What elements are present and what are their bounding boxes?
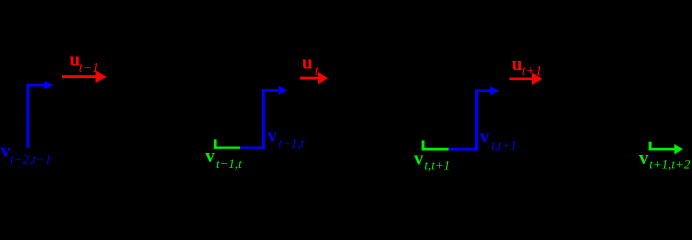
wire: blue L-arrow 1 horizontal segment bbox=[26, 84, 44, 87]
svg-text:t−1: t−1 bbox=[79, 61, 99, 76]
arrow u_t shaft (red) bbox=[300, 77, 319, 80]
arrowhead: blue L-arrow 1 bbox=[44, 81, 53, 90]
arrowhead u_{t+1} (red) bbox=[532, 73, 542, 85]
svg-text:v: v bbox=[205, 146, 215, 167]
arrowhead u_{t-1} (red) bbox=[96, 70, 107, 83]
wire: green corner 4 horizontal segment bbox=[649, 148, 675, 151]
svg-text:t,t+1: t,t+1 bbox=[424, 158, 450, 173]
arrowhead: blue step 2 bbox=[279, 86, 288, 95]
wire: blue step 3 top horizontal segment bbox=[475, 90, 490, 93]
svg-text:u: u bbox=[302, 53, 313, 74]
arrow u_{t+1} shaft (red) bbox=[509, 78, 532, 81]
arrowhead: green corner 4 bbox=[674, 144, 683, 154]
wire: green corner 3 vertical stub bbox=[422, 140, 425, 150]
svg-text:v: v bbox=[480, 127, 490, 148]
wire: blue step 3 bottom horizontal segment bbox=[449, 148, 478, 151]
arrow u_{t-1} shaft (red) bbox=[62, 75, 96, 78]
wire: blue step 2 vertical segment bbox=[262, 89, 265, 149]
svg-text:t−1,t: t−1,t bbox=[216, 156, 242, 171]
svg-text:t+1: t+1 bbox=[522, 64, 542, 79]
wire: blue step 2 top horizontal segment bbox=[262, 89, 279, 92]
wire: blue step 2 bottom horizontal segment bbox=[240, 147, 265, 149]
wire: green corner 2 horizontal segment bbox=[214, 147, 240, 149]
svg-text:t−2,t−1: t−2,t−1 bbox=[10, 152, 51, 167]
svg-text:v: v bbox=[267, 126, 277, 147]
svg-text:v: v bbox=[639, 148, 649, 169]
svg-text:t+1,t+2: t+1,t+2 bbox=[649, 157, 691, 172]
wire: green corner 4 vertical stub bbox=[649, 142, 652, 151]
svg-text:t−1,t: t−1,t bbox=[278, 135, 304, 150]
wire: green corner 2 vertical stub bbox=[214, 139, 217, 148]
wire: green corner 3 horizontal segment bbox=[422, 148, 449, 151]
wire: blue step 3 vertical segment bbox=[475, 90, 478, 151]
svg-text:t,t+1: t,t+1 bbox=[491, 137, 517, 152]
wire: blue L-arrow 1 vertical segment bbox=[26, 84, 29, 147]
arrowhead: blue step 3 bbox=[490, 86, 499, 95]
arrowhead u_t (red) bbox=[318, 72, 328, 85]
svg-text:v: v bbox=[414, 148, 424, 169]
